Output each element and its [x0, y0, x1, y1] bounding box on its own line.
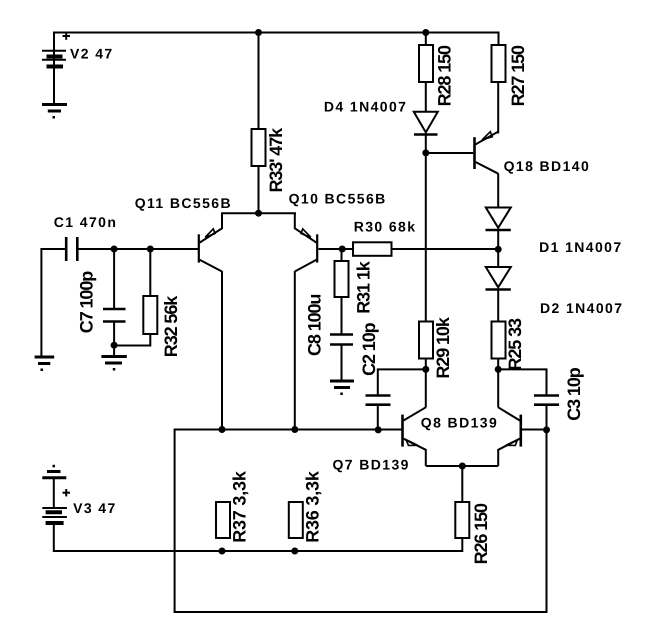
wire C8 to ground: [341, 345, 343, 381]
plus sign V2: [63, 33, 71, 40]
capacitor C8: [330, 335, 353, 345]
ground V3 inverted: [42, 465, 66, 478]
svg-text:R25 33: R25 33: [505, 318, 525, 371]
diode D1: [486, 208, 511, 231]
resistor R25: [492, 322, 506, 359]
svg-text:R28 150: R28 150: [435, 45, 455, 106]
svg-text:C3 10p: C3 10p: [564, 367, 584, 421]
wire Q10 base to R30: [319, 248, 354, 250]
wire D1 to D2: [497, 230, 499, 267]
svg-text:R27 150: R27 150: [508, 45, 528, 106]
wire input ground drop: [40, 248, 42, 357]
node Q11 coll feedback: [219, 426, 226, 433]
node emitter junction: [255, 210, 262, 217]
node R30 left: [339, 246, 346, 253]
svg-text:R33' 47k: R33' 47k: [266, 127, 286, 193]
svg-text:R37 3,3k: R37 3,3k: [230, 470, 250, 543]
wire C3 link: [498, 369, 546, 395]
wire Q8 collector rail: [425, 369, 427, 407]
wire Q18 collector to D1: [497, 174, 499, 208]
node input-R32: [147, 246, 154, 253]
wire Q10 collector: [294, 271, 296, 430]
wire R33 rail: [258, 32, 260, 130]
wire R32 drop: [149, 249, 151, 296]
wire R27 rail top: [498, 32, 500, 46]
svg-text:R26 150: R26 150: [471, 503, 491, 564]
wire R26 bottom bend: [54, 537, 463, 551]
node emitter bus: [459, 463, 466, 470]
transistor Q11: [199, 213, 222, 271]
battery V2: [42, 51, 66, 67]
resistor R32: [143, 296, 157, 334]
wire R30 to D1 node: [392, 248, 499, 250]
ground C7: [101, 357, 126, 371]
resistor R26: [455, 502, 469, 538]
node D1-R30: [495, 246, 502, 253]
transistor Q8: [403, 407, 426, 450]
wire R31 drop: [341, 249, 343, 261]
wire V3 plus lead: [53, 478, 55, 508]
wire R27 to Q18 emitter: [497, 82, 499, 134]
svg-text:Q8 BD139: Q8 BD139: [421, 415, 498, 431]
transistor Q18: [475, 132, 499, 174]
wire D2 to R25: [497, 290, 499, 322]
node bottom rail R36: [291, 548, 298, 555]
node R29 bottom: [422, 366, 429, 373]
node top rail R33: [255, 29, 262, 36]
wire right collector rail: [497, 369, 499, 407]
wire Q8 emitter drop: [425, 449, 427, 466]
wire C3 down to output: [546, 405, 548, 613]
wire input: [41, 248, 65, 250]
capacitor C7: [103, 309, 126, 322]
wire right base: [522, 429, 547, 431]
wire emitter bus: [426, 465, 498, 467]
diode D2: [486, 267, 511, 290]
transistor Q10: [295, 213, 317, 271]
node C3-base: [543, 426, 550, 433]
svg-text:C8 100u: C8 100u: [305, 295, 325, 356]
transistor Q7: [498, 407, 521, 450]
svg-text:V2 47: V2 47: [70, 46, 114, 62]
wire V3 minus lead: [53, 525, 55, 553]
resistor R36: [289, 502, 303, 538]
ground input: [35, 357, 55, 371]
svg-text:D4 1N4007: D4 1N4007: [324, 99, 407, 115]
wire R25 to node: [497, 358, 499, 370]
resistor R31: [335, 261, 349, 297]
svg-text:Q18 BD140: Q18 BD140: [504, 158, 591, 174]
wire emitter Q11-Q10: [221, 212, 296, 214]
ground under V2: [42, 105, 67, 119]
resistor R37: [216, 502, 230, 538]
node top rail R28: [422, 29, 429, 36]
svg-text:D1 1N4007: D1 1N4007: [539, 239, 622, 255]
wire R28 rail: [425, 32, 427, 45]
capacitor C1: [66, 237, 77, 261]
svg-text:R31 1k: R31 1k: [354, 260, 374, 314]
plus sign V3: [63, 489, 71, 496]
ground C8: [330, 381, 354, 395]
wire top rail: [54, 33, 499, 105]
svg-text:R32 56k: R32 56k: [161, 295, 181, 357]
node C2-base: [375, 426, 382, 433]
wire R26 top: [461, 466, 463, 502]
node Q10 coll feedback: [291, 426, 298, 433]
node D4-Q18 base: [422, 149, 429, 156]
wire Q18 base: [426, 152, 473, 154]
capacitor C3: [534, 396, 559, 405]
resistor R29: [419, 322, 433, 359]
svg-text:Q10 BC556B: Q10 BC556B: [289, 191, 387, 207]
svg-text:C2 10p: C2 10p: [359, 322, 379, 376]
svg-text:R29 10k: R29 10k: [433, 316, 453, 378]
node C7-R32 bottom: [111, 342, 118, 349]
svg-text:Q7 BD139: Q7 BD139: [333, 457, 410, 473]
svg-text:V3 47: V3 47: [73, 500, 117, 516]
wire Q11 collector: [221, 271, 223, 430]
diode D4: [414, 112, 438, 135]
wire feedback horizontal: [175, 430, 402, 613]
node bottom rail R37: [219, 548, 226, 555]
svg-text:Q11 BC556B: Q11 BC556B: [135, 195, 232, 211]
node input-C7: [111, 246, 118, 253]
svg-text:R36 3,3k: R36 3,3k: [303, 470, 323, 543]
resistor R33: [252, 129, 266, 166]
wire C2 link: [378, 369, 426, 395]
wire C7 drop: [113, 249, 115, 308]
wire bottom output: [174, 611, 548, 613]
resistor R30: [353, 242, 392, 256]
capacitor C2: [366, 396, 391, 405]
battery V3: [42, 508, 67, 523]
svg-text:C7 100p: C7 100p: [77, 271, 97, 333]
wire right emitter drop: [497, 449, 499, 466]
resistor R27: [492, 45, 506, 82]
svg-text:D2 1N4007: D2 1N4007: [540, 300, 623, 316]
wire C2 to base node: [377, 405, 379, 431]
svg-text:R30 68k: R30 68k: [354, 219, 417, 235]
resistor R28: [419, 45, 433, 82]
svg-text:C1 470n: C1 470n: [54, 214, 118, 230]
node R25 bottom: [495, 366, 502, 373]
